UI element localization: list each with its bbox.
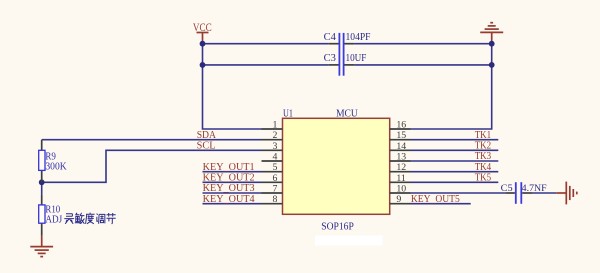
wire KEY OUT4 (pin 8 row) — [203, 203, 262, 205]
svg-text:KEY_OUT4: KEY_OUT4 — [203, 194, 255, 205]
svg-text:TK5: TK5 — [475, 173, 492, 184]
svg-text:1: 1 — [272, 120, 277, 131]
svg-text:6: 6 — [272, 173, 277, 184]
power port VCC — [193, 22, 212, 44]
wire C3 row left of C3 — [203, 64, 329, 66]
svg-text:5: 5 — [272, 162, 277, 173]
pin 4 stub — [262, 160, 283, 162]
svg-text:104PF: 104PF — [346, 32, 371, 43]
resistor R10 — [39, 195, 45, 236]
pin 16 stub — [390, 128, 411, 130]
svg-text:TK3: TK3 — [475, 151, 492, 162]
pin 13 stub — [390, 160, 411, 162]
svg-text:KEY_OUT5: KEY_OUT5 — [411, 194, 460, 205]
pin 3 stub — [262, 149, 283, 151]
pin 10 stub — [390, 192, 411, 194]
svg-text:KEY_OUT3: KEY_OUT3 — [203, 183, 255, 194]
pin 2 stub — [262, 139, 283, 141]
svg-text:C4: C4 — [324, 32, 336, 43]
svg-text:SOP16P: SOP16P — [321, 220, 354, 232]
wire C3 row right of C3 to ground column — [354, 64, 492, 66]
pin 14 stub — [390, 149, 411, 151]
wire pin 10 row to C5 — [411, 192, 506, 194]
svg-text:SCL: SCL — [197, 141, 216, 152]
wire KEY OUT5 (pin 9 row) — [411, 203, 471, 205]
pin 6 stub — [262, 181, 283, 183]
wire TK2 (pin 14 row) — [411, 149, 499, 151]
svg-text:C3: C3 — [324, 53, 336, 64]
wire TK1 (pin 15 row) — [411, 139, 499, 141]
wire SCL (pin 3 row with drop to R9/R10 junction) — [42, 150, 262, 182]
svg-text:13: 13 — [396, 152, 406, 163]
Chinese annotation 灵敏度调节 (drawn strokes) — [64, 213, 115, 224]
char 调 — [97, 214, 105, 224]
svg-text:MCU: MCU — [336, 108, 358, 119]
svg-text:16: 16 — [396, 120, 406, 131]
junction VCC / C3 row — [200, 62, 206, 68]
wire C4 row right of C4 to ground column — [354, 43, 492, 45]
wire TK3 (pin 13 row) — [411, 160, 499, 162]
wire KEY OUT3 (pin 7 row) — [203, 192, 262, 194]
wire TK4 (pin 12 row) — [411, 171, 499, 173]
pin 15 stub — [390, 139, 411, 141]
svg-text:4.7NF: 4.7NF — [522, 184, 547, 194]
pin 12 stub — [390, 171, 411, 173]
junction ground column / C3 row — [489, 62, 495, 68]
op chip U1 body — [283, 118, 390, 214]
pin 9 stub — [390, 203, 411, 205]
wire ground column down to pin 16 — [411, 44, 492, 129]
svg-text:9: 9 — [396, 194, 401, 205]
pin 1 stub — [262, 128, 283, 130]
svg-text:7: 7 — [272, 184, 277, 195]
pin 11 stub — [390, 181, 411, 183]
svg-text:14: 14 — [396, 141, 406, 152]
capacitor C3 — [329, 54, 354, 75]
char 度 — [86, 213, 95, 224]
svg-text:KEY_OUT1: KEY_OUT1 — [203, 162, 255, 173]
resistor R9 — [39, 140, 45, 183]
svg-text:15: 15 — [396, 130, 406, 141]
wire VCC column down to pin 1 row — [203, 44, 262, 129]
char 灵 — [64, 214, 74, 224]
wire KEY OUT1 (pin 5 row) — [203, 171, 262, 173]
ground (earth) bottom left — [30, 236, 53, 257]
junction ground column / C4 row — [489, 41, 495, 47]
wire KEY OUT2 (pin 6 row) — [203, 181, 262, 183]
svg-text:11: 11 — [396, 173, 406, 184]
svg-text:U1: U1 — [283, 108, 293, 119]
power rail VCC wire (top horizontal, C4 row, left of C4) — [203, 43, 329, 45]
svg-text:8: 8 — [272, 194, 277, 205]
junction VCC / C4 row — [200, 41, 206, 47]
pin 8 stub — [262, 203, 283, 205]
wire junction to R10 top pin — [41, 182, 43, 194]
svg-text:ADJ: ADJ — [45, 214, 62, 225]
svg-text:3: 3 — [272, 141, 277, 152]
svg-text:4: 4 — [272, 152, 277, 163]
svg-text:C5: C5 — [501, 184, 513, 194]
svg-text:10: 10 — [396, 184, 406, 195]
svg-text:TK4: TK4 — [475, 162, 492, 173]
junction SCL / R9-R10 node — [39, 179, 45, 185]
wire TK5 (pin 11 row) — [411, 181, 499, 183]
white patch below chip — [315, 236, 383, 246]
wire SDA (pin 2 row) — [42, 139, 262, 141]
svg-text:TK1: TK1 — [475, 130, 492, 141]
svg-text:KEY_OUT2: KEY_OUT2 — [203, 173, 255, 184]
wire C5 to right ground — [532, 192, 556, 194]
ground (earth) top right — [480, 23, 503, 44]
svg-text:300K: 300K — [45, 161, 67, 172]
svg-text:SDA: SDA — [197, 130, 217, 141]
ground (earth) right of C5 — [556, 182, 577, 205]
pin 5 stub — [262, 171, 283, 173]
svg-text:10UF: 10UF — [346, 53, 367, 64]
char 敏 — [75, 213, 85, 224]
char 节 — [107, 213, 116, 224]
capacitor C4 — [329, 33, 354, 55]
svg-text:TK2: TK2 — [475, 141, 492, 152]
svg-text:12: 12 — [396, 162, 406, 173]
capacitor C5 — [505, 182, 532, 204]
svg-text:2: 2 — [272, 130, 277, 141]
pin 7 stub — [262, 192, 283, 194]
